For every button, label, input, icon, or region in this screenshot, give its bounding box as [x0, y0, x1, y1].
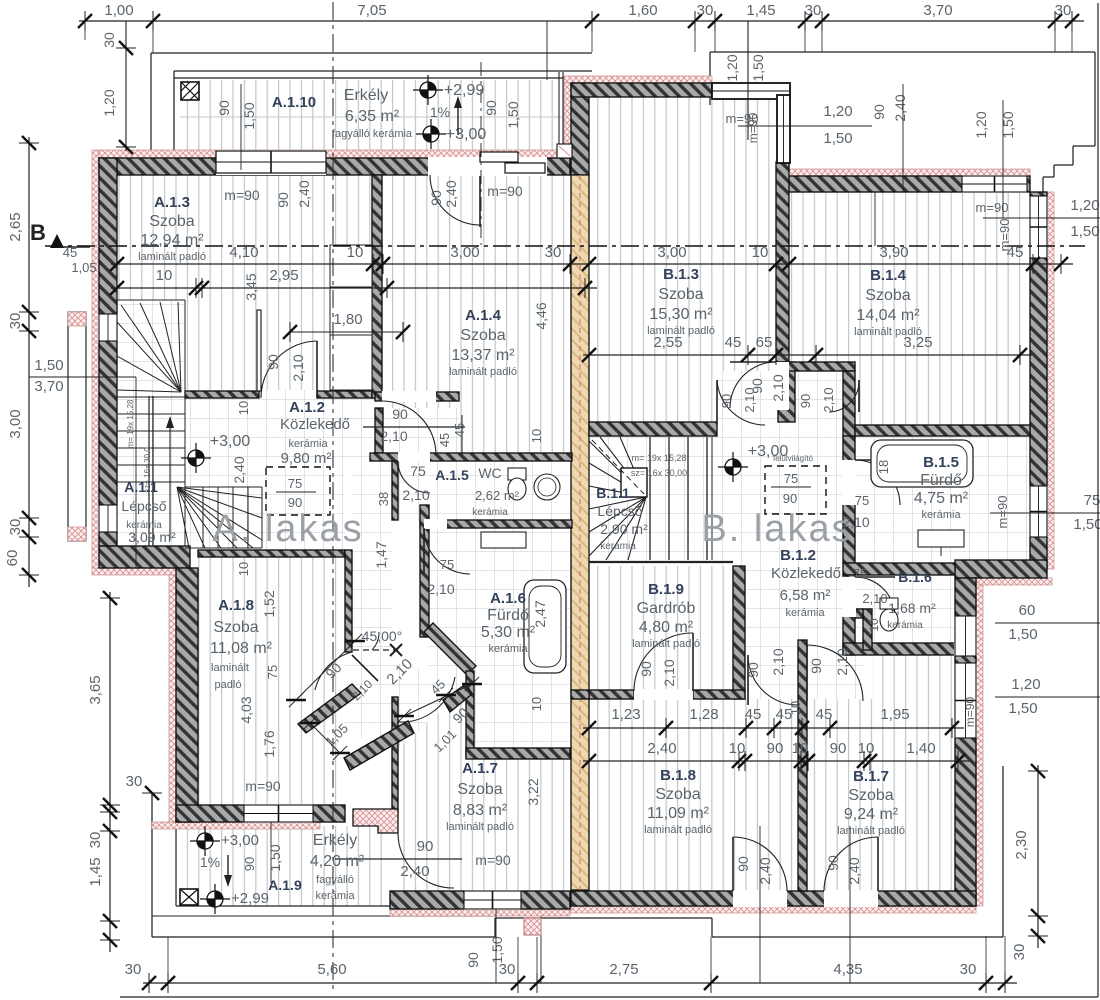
- wall exterior bottom A.1.8: [176, 805, 345, 822]
- svg-text:4,75 m²: 4,75 m²: [914, 490, 969, 507]
- svg-text:30: 30: [1011, 944, 1028, 961]
- chimney bottom left balcony: [180, 889, 198, 905]
- wall B.1.8-B.1.7 divider: [798, 640, 807, 891]
- svg-text:+3,00: +3,00: [748, 443, 789, 460]
- door leaf A.1.8 diagonal: [352, 655, 378, 681]
- svg-text:90: 90: [638, 661, 654, 677]
- svg-text:kerámia: kerámia: [315, 890, 355, 902]
- staircase B.1.1 winder fan: [600, 437, 646, 497]
- svg-text:30: 30: [7, 519, 24, 536]
- svg-text:2,65: 2,65: [7, 212, 24, 241]
- floor corridor A.1.2 diagonal part: [300, 655, 470, 762]
- eave outline bottom B terrace: [578, 917, 712, 919]
- svg-text:1,20: 1,20: [1011, 676, 1040, 693]
- svg-text:90: 90: [808, 658, 824, 674]
- svg-text:A. lakas: A. lakas: [212, 508, 363, 550]
- svg-text:B.1.5: B.1.5: [923, 454, 959, 471]
- svg-text:3,70: 3,70: [923, 2, 952, 19]
- top sub chain left: [125, 21, 127, 151]
- wall bath A.1.6 south: [466, 748, 570, 759]
- wall bath B.1.5 north: [855, 425, 1030, 436]
- svg-text:1,28: 1,28: [689, 706, 718, 723]
- svg-text:laminált: laminált: [211, 662, 249, 674]
- svg-text:1,45: 1,45: [87, 857, 104, 886]
- svg-text:Közlekedő: Közlekedő: [771, 565, 841, 582]
- insulation below bottom wall B: [571, 906, 976, 913]
- toilet B.1.6: [880, 598, 898, 609]
- svg-text:m=90: m=90: [245, 778, 281, 794]
- svg-text:Fürdő: Fürdő: [920, 472, 962, 489]
- insulation right wall lower B: [976, 585, 983, 906]
- window A.1.8 south: [244, 804, 313, 823]
- balcony A.1.10 east edge: [558, 72, 560, 144]
- wall exterior right B.1.4-B.1.5: [1030, 192, 1047, 569]
- svg-text:laminált padló: laminált padló: [446, 821, 514, 833]
- svg-text:3,90: 3,90: [879, 244, 908, 261]
- wall corridor B east lower: [863, 609, 872, 650]
- floor balcony A.1.10 tiles: [180, 80, 567, 150]
- svg-text:4,10: 4,10: [229, 244, 258, 261]
- wall exterior top B.1.4: [779, 176, 1030, 192]
- svg-text:2,10: 2,10: [770, 648, 786, 675]
- wall corridor east stub: [375, 408, 383, 453]
- svg-text:7,05: 7,05: [357, 2, 386, 19]
- svg-text:65: 65: [756, 334, 773, 351]
- svg-text:90: 90: [483, 100, 499, 116]
- top sub chain B: [747, 21, 749, 140]
- floor bath B.1.5 tiles: [855, 436, 1030, 563]
- B18 chain2: [583, 760, 970, 762]
- door arc A.1.4 balcony: [430, 175, 480, 225]
- svg-text:Szoba: Szoba: [848, 787, 893, 804]
- level marker +3,00 corridor B: [725, 459, 741, 475]
- insulation top wall B.1.3: [564, 76, 712, 83]
- eave outline balcony A.1.10: [151, 52, 592, 54]
- svg-text:30: 30: [87, 832, 104, 849]
- svg-text:90: 90: [428, 190, 444, 206]
- window A.1.7 south: [464, 890, 521, 910]
- floor bath A.1.6 tiles: [428, 528, 570, 748]
- svg-text:2,10: 2,10: [842, 514, 869, 530]
- wall B.1.1 north: [589, 422, 717, 436]
- svg-text:A.1.8: A.1.8: [218, 597, 254, 614]
- svg-text:8,83 m²: 8,83 m²: [453, 802, 508, 819]
- svg-text:2,40: 2,40: [296, 180, 312, 207]
- svg-text:90: 90: [767, 740, 784, 757]
- svg-text:2,10: 2,10: [290, 354, 306, 381]
- right 2,30: [1037, 765, 1039, 948]
- slope arrow A.1.9: [227, 855, 229, 883]
- wall corridor B east upper: [843, 371, 855, 437]
- wall exterior top B.1.3: [571, 83, 712, 97]
- extension line B.1.4 window: [902, 84, 904, 192]
- svg-text:10: 10: [347, 244, 364, 261]
- wall corridor diagonal SE upper: [443, 684, 472, 712]
- svg-text:1%: 1%: [200, 854, 220, 870]
- wall left A.1.7: [392, 697, 398, 812]
- door opening bath A.1.6: [424, 519, 447, 529]
- svg-text:Szoba: Szoba: [460, 327, 505, 344]
- svg-text:1,23: 1,23: [611, 706, 640, 723]
- svg-text:laminált padló: laminált padló: [854, 326, 922, 338]
- sheet border bottom: [120, 996, 1098, 998]
- svg-text:kerámia: kerámia: [488, 643, 528, 655]
- svg-text:1,47: 1,47: [373, 541, 389, 568]
- window stair A.1.1 west lower: [98, 505, 118, 532]
- eave outline bottom A terrace: [151, 793, 153, 937]
- window B.1.7 east: [954, 663, 977, 738]
- svg-text:Erkély: Erkély: [313, 832, 357, 849]
- svg-text:6,58 m²: 6,58 m²: [780, 587, 831, 604]
- svg-text:4,46: 4,46: [533, 302, 549, 329]
- svg-text:1,50: 1,50: [750, 54, 766, 81]
- svg-text:laminált padló: laminált padló: [138, 251, 206, 263]
- svg-text:Szoba: Szoba: [865, 287, 910, 304]
- closet partition wall A.1.3: [257, 310, 261, 391]
- svg-text:10: 10: [867, 618, 881, 632]
- balcony A.1.9 south edge: [176, 905, 392, 907]
- washbasin A.1.6: [481, 532, 526, 548]
- svg-text:30: 30: [805, 2, 822, 19]
- svg-text:Szoba: Szoba: [149, 213, 194, 230]
- staircase A.1.1: [117, 396, 185, 398]
- extension lines bottom chain: [517, 937, 519, 983]
- floor room A.1.7 laminate: [398, 695, 570, 891]
- wall exterior bottom B: [571, 891, 976, 906]
- svg-text:A.1.5: A.1.5: [435, 467, 469, 483]
- wall WC A.1.5 west: [392, 461, 398, 520]
- balcony A.1.9 west edge: [175, 822, 177, 906]
- skylight hatch B (dashed): [765, 466, 826, 514]
- svg-text:Lépcső: Lépcső: [597, 503, 642, 519]
- wall corridor B stub: [855, 609, 863, 618]
- B18 chain1: [583, 727, 964, 729]
- svg-text:1%: 1%: [430, 104, 450, 120]
- svg-text:m= 19x 15,28: m= 19x 15,28: [126, 399, 135, 448]
- svg-text:A.1.1: A.1.1: [124, 479, 158, 495]
- svg-text:2,62 m²: 2,62 m²: [475, 488, 520, 503]
- svg-text:A.1.7: A.1.7: [462, 760, 498, 777]
- svg-text:90: 90: [265, 354, 281, 370]
- svg-text:2,40: 2,40: [647, 740, 676, 757]
- door opening A.1.4 south: [382, 391, 436, 402]
- door arc B.1.6: [855, 577, 895, 617]
- svg-text:90: 90: [417, 838, 434, 855]
- door arc B.1.8 terrace: [733, 837, 787, 891]
- svg-text:m=90: m=90: [475, 852, 511, 868]
- level marker +3,00 balcony A.1.9: [197, 833, 213, 849]
- svg-text:90: 90: [719, 394, 734, 408]
- svg-text:kerámia: kerámia: [921, 509, 961, 521]
- svg-text:4,80 m²: 4,80 m²: [639, 619, 694, 636]
- wall A.1.3-A.1.4 divider: [372, 175, 382, 398]
- bottom chain line: [143, 982, 1017, 984]
- door arc WC A.1.5: [398, 461, 430, 493]
- door arc corridor B east: [829, 380, 859, 412]
- window stair A.1.1 west upper: [98, 314, 118, 341]
- bay window left: [68, 312, 86, 541]
- wall A.1.3 south west part: [185, 391, 259, 398]
- stair A.1.1 up arrow: [169, 425, 171, 540]
- svg-text:10: 10: [858, 740, 875, 757]
- svg-text:2,40: 2,40: [400, 863, 429, 880]
- svg-text:1,95: 1,95: [880, 706, 909, 723]
- svg-text:2,40: 2,40: [757, 857, 773, 884]
- wall bath A.1.6 west upper: [420, 505, 429, 637]
- svg-text:45: 45: [745, 706, 762, 723]
- svg-text:18: 18: [876, 460, 891, 474]
- svg-text:1,50: 1,50: [267, 844, 283, 871]
- staircase B.1.1 treads: [649, 437, 651, 560]
- svg-text:2,10: 2,10: [862, 591, 887, 606]
- svg-text:A.1.6: A.1.6: [490, 590, 526, 607]
- balcony sliding door A.1.4: [478, 157, 547, 176]
- bathtub B.1.5: [871, 440, 973, 487]
- svg-text:+3,00: +3,00: [446, 126, 487, 143]
- window B.1.6 east: [954, 616, 977, 656]
- svg-text:A.1.3: A.1.3: [154, 194, 190, 211]
- floor balcony A.1.9 tiles: [176, 826, 392, 906]
- A13 chain: [111, 287, 597, 289]
- svg-text:45: 45: [725, 334, 742, 351]
- extension line A.1.7 window: [495, 909, 497, 983]
- svg-text:1,50: 1,50: [1000, 111, 1016, 138]
- svg-text:1,68 m²: 1,68 m²: [888, 600, 936, 616]
- svg-text:laminált padló: laminált padló: [647, 325, 715, 337]
- svg-text:1,50: 1,50: [34, 357, 63, 374]
- svg-text:30: 30: [126, 773, 143, 790]
- level marker +3,00 corridor A: [188, 450, 204, 466]
- svg-text:2,10: 2,10: [834, 648, 850, 675]
- wall B.1.9 south east part: [693, 690, 745, 699]
- door opening B.1.8 terrace: [733, 890, 787, 907]
- wall corridor B north: [776, 362, 855, 371]
- svg-text:4,03: 4,03: [238, 696, 254, 723]
- window room A.1.3 north: [216, 150, 326, 175]
- washbasin B.1.5: [918, 530, 964, 547]
- level marker +3,00 balcony A.1.10: [423, 126, 439, 142]
- chimney top left: [181, 82, 199, 100]
- svg-text:3,00: 3,00: [7, 409, 24, 438]
- insulation below A.1.7 wall: [390, 909, 570, 916]
- svg-text:+2,99: +2,99: [231, 890, 269, 907]
- section marker line: [60, 246, 90, 248]
- svg-text:m=90: m=90: [746, 113, 760, 144]
- right margin bath window dims: [990, 512, 1100, 514]
- door opening B.1.7 terrace: [824, 890, 878, 907]
- wall B.1.5 south - B.1.6 north: [843, 563, 955, 575]
- diagonal dim line: [296, 641, 355, 700]
- svg-text:kerámia: kerámia: [785, 607, 825, 619]
- svg-text:fagyálló kerámia: fagyálló kerámia: [332, 128, 413, 140]
- left chain 3,65: [109, 592, 111, 817]
- svg-text:1,20: 1,20: [101, 89, 117, 116]
- svg-text:Közlekedő: Közlekedő: [280, 416, 350, 433]
- wall corridor B west stub: [778, 362, 795, 422]
- centre line vertical A.1.10: [480, 62, 482, 245]
- section line B-B horizontal: [45, 245, 1085, 247]
- svg-text:75: 75: [855, 493, 869, 508]
- door arc B.1.9: [634, 633, 693, 691]
- level marker +2,99 balcony A.1.10: [420, 82, 436, 98]
- left chain line: [28, 137, 30, 587]
- wall exterior left A: [99, 158, 117, 546]
- svg-text:2,75: 2,75: [609, 961, 638, 978]
- floor room B.1.8 laminate: [589, 699, 798, 891]
- door arc B stair landing: [717, 380, 765, 425]
- svg-text:1,50: 1,50: [1008, 700, 1037, 717]
- extension lines top chain: [591, 21, 593, 52]
- svg-text:3,00: 3,00: [657, 244, 686, 261]
- wall B.1.6 south: [843, 643, 957, 655]
- svg-text:laminált padló: laminált padló: [449, 366, 517, 378]
- svg-text:B.1.6: B.1.6: [898, 569, 932, 585]
- door arc B.1.8 entry: [748, 655, 798, 705]
- svg-text:A.1.2: A.1.2: [289, 399, 325, 416]
- dashed 45 deg helper: [353, 649, 398, 651]
- svg-text:3,00: 3,00: [450, 244, 479, 261]
- svg-text:90: 90: [871, 104, 887, 120]
- extension line A.1.10 window: [240, 84, 242, 170]
- svg-text:90: 90: [798, 394, 813, 408]
- svg-text:2,10: 2,10: [380, 428, 407, 444]
- svg-text:padló: padló: [215, 679, 242, 691]
- wall corridor B bottom left stub: [571, 690, 589, 699]
- svg-text:kerámia: kerámia: [887, 620, 923, 631]
- svg-text:A.1.9: A.1.9: [268, 877, 302, 893]
- svg-text:30: 30: [7, 313, 24, 330]
- insulation below B step wall: [955, 578, 1052, 585]
- stair A.1.1 center rail: [148, 396, 150, 546]
- svg-text:10: 10: [788, 701, 803, 715]
- svg-text:1,50: 1,50: [505, 101, 521, 128]
- corner window B.1.3 top-right horizontal leg: [712, 83, 790, 99]
- svg-text:60: 60: [1019, 602, 1036, 619]
- junction block A.1.10 east: [557, 144, 572, 158]
- svg-text:45: 45: [816, 706, 833, 723]
- floor corridor B.1.2 tiles: [717, 371, 855, 699]
- svg-text:Lépcső: Lépcső: [121, 498, 166, 514]
- svg-text:B: B: [30, 220, 46, 245]
- svg-text:Szoba: Szoba: [213, 619, 258, 636]
- top chain line: [79, 20, 1084, 22]
- svg-text:2,90 m²: 2,90 m²: [600, 521, 648, 537]
- door arc A.1.8: [315, 652, 352, 690]
- window B.1.5 east: [1029, 486, 1048, 537]
- wall bath A.1.6 west lower: [466, 671, 474, 757]
- svg-text:3,65: 3,65: [87, 675, 104, 704]
- chain A.1.3 1,80: [290, 331, 403, 333]
- extension line B.1.7 door: [849, 826, 851, 983]
- svg-text:B.1.3: B.1.3: [663, 266, 699, 283]
- floor stair B.1.1 tiles: [589, 437, 717, 560]
- wall bath B.1.5 west: [843, 436, 855, 563]
- svg-text:30: 30: [125, 961, 142, 978]
- svg-text:+3,00: +3,00: [221, 832, 259, 849]
- svg-text:sz= 16x 30,00: sz= 16x 30,00: [631, 468, 687, 478]
- svg-text:1,60: 1,60: [628, 2, 657, 19]
- svg-text:2,10: 2,10: [402, 487, 429, 503]
- svg-text:30: 30: [545, 244, 562, 261]
- balcony A.1.9 eave edge: [152, 915, 495, 917]
- wall corridor diagonal SE lower: [344, 721, 414, 770]
- extension line B.1.8 door: [759, 826, 761, 983]
- svg-text:A.1.4: A.1.4: [465, 307, 502, 324]
- svg-text:1,45: 1,45: [746, 2, 775, 19]
- floor room A.1.3 laminate: [117, 175, 372, 391]
- extension line B.1.4: [874, 192, 876, 246]
- svg-text:1,52: 1,52: [261, 590, 277, 617]
- svg-text:1,76: 1,76: [261, 730, 277, 757]
- wall party A-B: [571, 175, 589, 890]
- wall exterior bottom A.1.7: [390, 891, 570, 909]
- sheet border right: [1097, 3, 1099, 997]
- svg-text:laminált padló: laminált padló: [837, 825, 905, 837]
- door arc B.1.3: [730, 362, 776, 408]
- svg-text:10: 10: [529, 429, 544, 443]
- svg-text:B.1.4: B.1.4: [870, 267, 907, 284]
- angle vertex marker: [390, 644, 402, 656]
- insulation left B.1.3 top: [564, 83, 571, 175]
- wall corridor north A: [375, 392, 459, 401]
- svg-text:90: 90: [745, 662, 761, 678]
- svg-text:60: 60: [4, 550, 21, 567]
- svg-text:+3,00: +3,00: [210, 433, 251, 450]
- svg-text:1,50: 1,50: [489, 936, 505, 963]
- svg-text:Erkély: Erkély: [344, 87, 388, 104]
- svg-text:11,08 m²: 11,08 m²: [210, 640, 273, 657]
- B rooms chain: [583, 354, 1032, 356]
- svg-text:2,40: 2,40: [846, 857, 862, 884]
- party wall insulation joint: [579, 175, 581, 890]
- svg-text:1,50: 1,50: [1070, 223, 1099, 240]
- svg-text:m=90: m=90: [224, 187, 260, 203]
- svg-text:3,45: 3,45: [243, 273, 259, 300]
- wall B.1.9 south west part: [589, 690, 634, 699]
- svg-text:75: 75: [853, 566, 867, 581]
- svg-text:m=90: m=90: [487, 183, 523, 199]
- svg-text:45: 45: [1007, 244, 1024, 261]
- svg-text:B.1.9: B.1.9: [648, 581, 684, 598]
- svg-text:kerámia: kerámia: [472, 507, 508, 518]
- svg-text:2,10: 2,10: [821, 387, 836, 412]
- svg-text:10: 10: [529, 697, 544, 711]
- wall corridor west stub A: [345, 550, 352, 652]
- svg-text:90: 90: [242, 857, 257, 871]
- svg-text:Szoba: Szoba: [658, 286, 703, 303]
- svg-text:38: 38: [376, 492, 391, 506]
- stair B.1.1 dashed walk line: [592, 440, 644, 494]
- svg-text:2,47: 2,47: [532, 600, 548, 627]
- left chain lower: [109, 806, 111, 952]
- floor corridor A.1.2 tiles north: [185, 390, 375, 461]
- svg-text:1,40: 1,40: [906, 740, 935, 757]
- svg-text:30: 30: [697, 2, 714, 19]
- svg-text:3,09 m²: 3,09 m²: [128, 529, 176, 545]
- svg-text:30: 30: [101, 32, 117, 48]
- svg-text:kerámia: kerámia: [288, 438, 328, 450]
- svg-text:1,50: 1,50: [241, 102, 257, 129]
- svg-text:A.1.10: A.1.10: [272, 94, 316, 111]
- left 1,50 3,70: [29, 376, 136, 378]
- eave outline B roof top: [710, 51, 1095, 53]
- svg-text:90: 90: [216, 100, 232, 116]
- svg-text:m=90: m=90: [963, 697, 977, 728]
- floor WC A.1.5 tiles: [398, 461, 570, 520]
- svg-text:Fürdő: Fürdő: [487, 607, 529, 624]
- svg-text:Szoba: Szoba: [655, 786, 700, 803]
- extension line top: [546, 21, 548, 80]
